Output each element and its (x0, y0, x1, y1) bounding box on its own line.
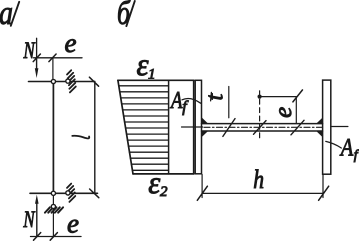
h dim extension right (322, 175, 324, 198)
svg-text:а: а (0, 0, 13, 32)
top e dimension line (34, 57, 83, 59)
top wall hatch (67, 70, 71, 74)
force N bottom (arrow) (35, 195, 39, 204)
dot ext up (259, 91, 261, 95)
l dim tick bottom (90, 189, 99, 198)
t extension line (228, 87, 230, 118)
e dim tick (293, 90, 303, 102)
svg-text:e: e (65, 28, 77, 58)
bottom roller (66, 191, 70, 195)
strain diagram top edge (118, 79, 194, 81)
weld right bottom (316, 131, 323, 137)
right flange (323, 80, 331, 174)
svg-text:ε: ε (148, 164, 160, 200)
svg-text:A: A (339, 135, 354, 162)
strain box right edge (193, 80, 195, 174)
column (52, 82, 54, 194)
left flange (195, 80, 201, 174)
h dim tick left (197, 186, 207, 200)
ground pin (51, 204, 55, 208)
svg-text:A: A (169, 88, 182, 114)
h dimension line (202, 192, 323, 194)
top hinge (51, 79, 55, 83)
top roller (66, 79, 70, 83)
strain diagram bottom edge (133, 173, 194, 175)
svg-text:2: 2 (160, 184, 168, 200)
h dim extension left (201, 175, 203, 198)
strain diagram left slant edge (118, 80, 133, 174)
svg-text:N: N (23, 38, 36, 63)
web break slash 2 (254, 121, 267, 135)
l dim tick top (89, 77, 98, 86)
column axis ext top (52, 58, 54, 82)
e dim extension (295, 97, 297, 124)
centerline dash-dot (204, 126, 323, 128)
svg-text:t: t (203, 93, 229, 101)
l dimension line (94, 82, 96, 194)
web break slash 1 (223, 119, 235, 137)
bottom hinge (51, 191, 55, 195)
strain hatch boundary (168, 80, 170, 174)
top e dim tick left (33, 54, 40, 62)
centerline left tick (182, 126, 203, 128)
Af-bar leader (182, 98, 201, 103)
weld left bottom (202, 131, 209, 137)
top e dim tick right (49, 54, 56, 62)
force N top (arrow) (36, 58, 38, 70)
web top line (202, 123, 323, 125)
bottom e dimension line (31, 236, 82, 238)
centerline right tick (331, 126, 348, 128)
dashed action line (259, 99, 261, 140)
Af label right leader (326, 141, 342, 148)
load point dot (258, 95, 262, 99)
e dimension line (section) (260, 96, 297, 98)
strain hatch lines (119, 85, 168, 87)
svg-text:N: N (23, 207, 36, 232)
weld right top (316, 118, 323, 124)
l label (72, 136, 89, 139)
svg-text:e: e (270, 107, 297, 118)
ground hatch (45, 207, 50, 212)
svg-text:h: h (253, 165, 264, 194)
bottom e dim tick left (34, 233, 41, 241)
svg-text:e: e (67, 209, 79, 239)
bottom bar (30, 192, 98, 194)
svg-text:f: f (182, 98, 189, 115)
bottom wall hatch (67, 184, 71, 188)
web break slash 3 (291, 120, 304, 135)
weld left top (202, 118, 209, 125)
top bar (29, 81, 95, 83)
h dim tick right (319, 186, 329, 200)
web bottom line (202, 130, 323, 132)
N extension line top (36, 38, 38, 58)
svg-text:f: f (354, 148, 359, 163)
axis ext bottom (52, 193, 54, 236)
bottom e dim tick right (50, 233, 57, 241)
